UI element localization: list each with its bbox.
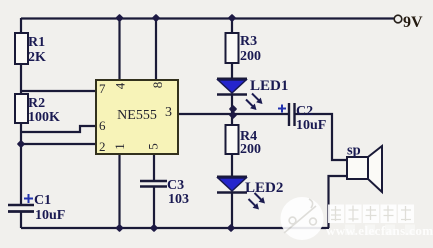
speaker SP [347, 157, 368, 179]
wire pin6 jog [22, 126, 96, 132]
svg-text:LED1: LED1 [250, 78, 288, 94]
op-amp U1 NE555 timer [96, 80, 178, 154]
resistor R4 [226, 125, 239, 154]
node dot pin8/top rail [152, 14, 160, 22]
svg-text:10uF: 10uF [296, 118, 326, 133]
capacitor C1 [8, 205, 34, 212]
svg-text:R1: R1 [28, 35, 45, 50]
node dot pin1/bottom rail [115, 224, 123, 232]
wire LED2 to bottom rail [231, 193, 233, 228]
wire R4 to LED2 [231, 154, 233, 177]
wire bottom rail [21, 227, 329, 229]
wire C2 to speaker top [295, 114, 348, 160]
svg-text:200: 200 [240, 49, 261, 64]
svg-text:9V: 9V [403, 14, 423, 31]
node dot pin4/top rail [115, 14, 123, 22]
svg-text:2K: 2K [28, 50, 46, 65]
svg-text:10uF: 10uF [35, 208, 65, 223]
resistor R2 [15, 94, 28, 123]
wire speaker bottom to rail [329, 176, 348, 228]
svg-text:3: 3 [165, 105, 172, 120]
node dot node3 junction b [229, 111, 237, 119]
svg-text:100K: 100K [28, 110, 60, 125]
watermark text big [328, 205, 414, 224]
svg-text:8: 8 [150, 82, 165, 89]
wire left rail top (rail to R1) [20, 18, 22, 33]
wire pin1 down [118, 154, 120, 228]
svg-text:200: 200 [240, 142, 261, 157]
wire pin4 up [118, 18, 120, 80]
svg-text:sp: sp [347, 143, 361, 159]
wire pin7 to left rail [21, 90, 96, 92]
svg-text:1: 1 [112, 143, 127, 150]
svg-text:5: 5 [146, 143, 161, 150]
terminal 9V [394, 15, 402, 23]
wire R2 down to C1 [20, 123, 22, 205]
wire pin8 up [155, 18, 157, 80]
node dot LED1 lower a [229, 105, 237, 113]
wire pin2 to left rail [21, 143, 96, 145]
svg-text:7: 7 [99, 81, 106, 96]
svg-text:C1: C1 [34, 193, 51, 208]
node dot LED2/bottom rail [227, 224, 235, 232]
wire top rail +9V [21, 17, 394, 19]
LED2 [217, 177, 283, 210]
svg-text:R3: R3 [240, 34, 257, 49]
LED1 arrows [246, 94, 260, 108]
LED2 arrows [249, 193, 263, 207]
svg-text:C2: C2 [296, 104, 313, 119]
svg-text:R2: R2 [28, 96, 45, 111]
svg-text:2: 2 [99, 139, 106, 154]
svg-text:103: 103 [168, 192, 189, 207]
resistor R1 [15, 33, 28, 64]
watermark logo circle [281, 197, 324, 240]
wire R1 to R2 [20, 64, 22, 94]
wire R3 to LED1 [231, 63, 233, 79]
capacitor C2 [278, 105, 286, 113]
svg-text:LED2: LED2 [245, 180, 283, 196]
capacitor C3 [140, 181, 167, 187]
wire C3 to bottom rail [153, 187, 155, 228]
wire pin5 down to C3 [153, 154, 155, 181]
wire pin3 to C2 [178, 113, 289, 115]
wire LED1 to node3 [231, 95, 233, 125]
resistor R3 [226, 33, 239, 63]
svg-text:www.elecfans.com: www.elecfans.com [326, 223, 433, 238]
node dot C3/bottom rail [150, 224, 158, 232]
wire rail to R3 [231, 18, 233, 33]
svg-text:NE555: NE555 [117, 108, 157, 123]
node dot pin2/left rail [17, 140, 25, 148]
svg-text:6: 6 [99, 118, 106, 133]
svg-text:C3: C3 [167, 178, 184, 193]
node dot R3/top rail [228, 14, 236, 22]
LED1 [217, 78, 288, 110]
wire C1 to bottom rail [20, 212, 22, 228]
svg-text:4: 4 [113, 82, 128, 89]
